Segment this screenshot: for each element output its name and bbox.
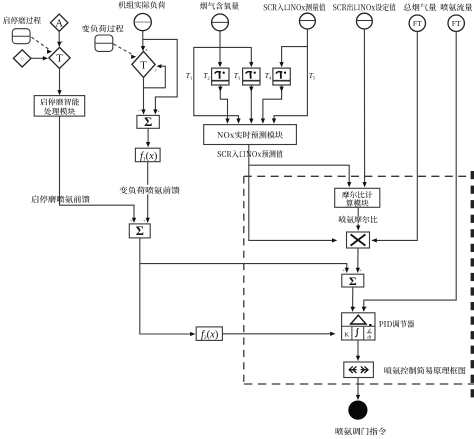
- wire: delay T2 output to NOx module: [220, 85, 227, 121]
- svg-text:8: 8: [146, 48, 148, 52]
- rounded state block (start/stop mill process): [12, 29, 30, 44]
- wire: sum2 down to f2(x): [140, 238, 193, 334]
- block text: NOx实时预测模块: [217, 131, 282, 138]
- label: 喷氨控制简易原理框图: [384, 367, 465, 375]
- label: 喷氨摩尔比: [339, 216, 378, 224]
- delay block T2: [212, 68, 229, 85]
- dashed boundary top edge: [244, 175, 474, 177]
- function block f2(x): [196, 327, 222, 341]
- PID regulator block: [342, 313, 375, 340]
- svg-text:+: +: [130, 218, 133, 223]
- wire: inlet NOx branch to delay T4: [282, 47, 308, 65]
- block 摩尔比计算模块: [335, 188, 380, 207]
- block text line1: 启停磨智能: [40, 98, 79, 105]
- thick dashed page-edge right: [471, 171, 474, 179]
- label: 烟气含氧量: [200, 2, 239, 10]
- delay block T4: [273, 68, 290, 85]
- wire: f2(x) to PID tracking input: [222, 333, 333, 335]
- FT circle (total flue gas flow): [409, 15, 425, 31]
- block text line1: 摩尔比计: [342, 191, 372, 198]
- wire: T-switch to processing module: [59, 68, 61, 93]
- wire: O2 fork left to direct line T1: [194, 47, 239, 121]
- block 启停磨智能处理模块: [34, 96, 84, 117]
- FT circle (ammonia flow): [448, 15, 464, 31]
- wire: PID to hand station: [357, 340, 359, 359]
- diamond constant 0: [13, 50, 31, 67]
- wire: O2 transmitter to delay T2: [219, 31, 221, 65]
- rounded state block (load change process): [95, 35, 113, 51]
- wire: total flue gas FT to multiplier right input: [372, 31, 417, 240]
- dashed boundary left edge: [243, 176, 245, 384]
- svg-text:dt: dt: [367, 336, 372, 341]
- label: SCR入口NOx测量值: [264, 3, 326, 10]
- dashed wire: state block to T-switch: [32, 37, 51, 50]
- multiplier block ×: [347, 232, 370, 248]
- function block f1(x): [135, 148, 160, 162]
- svg-text:y: y: [154, 68, 157, 72]
- svg-text:−: −: [138, 108, 141, 114]
- block NOx实时预测模块: [204, 125, 297, 145]
- T-switch diamond (start/stop mill): [49, 47, 70, 68]
- wire: delay T3 output to NOx module: [250, 85, 252, 121]
- dashed boundary bottom edge: [244, 383, 474, 385]
- wire: prediction branch to molar module: [249, 165, 349, 185]
- svg-text:+: +: [143, 218, 146, 223]
- svg-text:f1(x): f1(x): [140, 151, 158, 163]
- transmitter circle (unit actual load): [134, 14, 151, 31]
- svg-text:T: T: [56, 54, 63, 65]
- svg-text:Σ: Σ: [136, 224, 144, 238]
- feedback wire around T-switch 2: [144, 66, 166, 88]
- wire: delay T4 output to NOx module: [263, 85, 282, 121]
- wire: NOx setpoint to molar module: [363, 29, 365, 185]
- T-switch diamond (load change): [132, 51, 155, 77]
- valve command filled circle: [348, 401, 367, 420]
- svg-text:y: y: [60, 40, 63, 44]
- label: 变负荷过程: [82, 25, 124, 33]
- transmitter circle (SCR outlet NOx setpoint): [357, 13, 373, 29]
- svg-text:f2(x): f2(x): [201, 330, 219, 342]
- wire: 0-diamond to T-switch: [31, 57, 46, 59]
- label: 机组实际负荷: [118, 1, 165, 9]
- label: 喷氨流量: [441, 3, 472, 10]
- svg-text:A: A: [55, 18, 63, 29]
- manual/auto transfer station: [344, 362, 374, 378]
- svg-text:Σ: Σ: [349, 274, 357, 288]
- svg-text:FT: FT: [452, 19, 461, 28]
- wire: molar module to multiplier: [357, 207, 359, 228]
- wire: load transmitter to T-switch 2: [142, 31, 144, 49]
- wire: sum2 branch to sum3 left input: [140, 264, 347, 271]
- diamond A (analog point): [51, 14, 68, 31]
- dashed wire: state block to T-switch 2: [114, 44, 134, 55]
- svg-text:y: y: [353, 306, 356, 310]
- white mask under 变负荷喷氨前馈: [118, 185, 181, 195]
- summer block sum3: [342, 274, 364, 287]
- transmitter circle (SCR inlet NOx measured): [300, 13, 316, 29]
- label: 启停磨喷氨前馈: [31, 195, 89, 203]
- delay block T3: [243, 68, 260, 85]
- summer block sum1: [137, 115, 159, 128]
- transmitter circle (flue gas O2): [212, 14, 229, 31]
- wire: hand station to valve command: [357, 378, 359, 398]
- wire: ammonia flow FT to PID feedback input: [364, 31, 456, 309]
- label: PID调节器: [379, 320, 414, 328]
- label: SCR入口NOx预测值: [218, 150, 283, 158]
- wire: NOx prediction down to multiplier left input: [249, 145, 335, 241]
- wire: inlet NOx transmitter down (direct line T5): [274, 29, 307, 121]
- svg-text:T: T: [140, 60, 147, 71]
- svg-text:FT: FT: [413, 19, 422, 28]
- svg-text:K: K: [344, 332, 349, 339]
- label: 喷氨调门指令: [336, 428, 387, 436]
- white mask under 喷氨摩尔比: [337, 216, 379, 224]
- wire: sum1 to f1(x): [147, 128, 149, 144]
- wire: sum3 to PID: [352, 287, 354, 309]
- block text line2: 算模块: [346, 199, 369, 206]
- wire: processing module to sum2 (start/stop feedforward): [60, 116, 135, 220]
- wire: load direct branch to sum1 plus input: [143, 39, 178, 112]
- block text line2: 处理模块: [44, 108, 75, 115]
- wire: O2 fork right to delay T3: [220, 47, 251, 64]
- label: 总烟气量: [404, 3, 437, 10]
- svg-text:Σ: Σ: [144, 115, 152, 129]
- label: 启停磨过程: [3, 17, 41, 25]
- summer block sum2: [129, 224, 150, 238]
- label: 变负荷喷氨前馈: [119, 186, 179, 194]
- wire: multiplier to sum3: [357, 248, 359, 271]
- wire: f1(x) to sum2 (load feedforward): [147, 162, 149, 221]
- wire: A-diamond to T-switch: [58, 31, 60, 44]
- wire: T-switch 2 to sum1 minus input: [143, 77, 145, 112]
- label: SCR出口NOx设定值: [333, 4, 396, 11]
